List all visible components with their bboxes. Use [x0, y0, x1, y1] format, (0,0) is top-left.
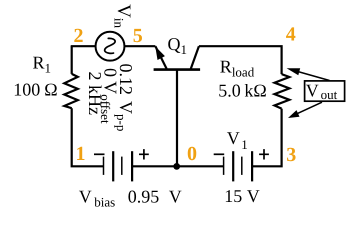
wire collector to top-right corner, down to R_load [199, 46, 282, 74]
svg-text:V1: V1 [227, 128, 248, 152]
svg-text:100: 100 [13, 80, 40, 100]
wire left rail top segment [71, 46, 73, 74]
battery V1 plate 4 (long, +) [251, 151, 253, 181]
wire battery V1 to junction node 0 to battery V_bias [132, 165, 224, 167]
V_out lower arrowhead [288, 110, 300, 118]
AC source V_in circle [96, 32, 125, 61]
svg-text:0: 0 [187, 143, 197, 165]
svg-text:R1: R1 [33, 53, 52, 76]
junction dot node 0 [173, 163, 180, 170]
svg-text:0.95: 0.95 [128, 186, 160, 206]
svg-text:2: 2 [74, 25, 84, 47]
battery V1 plate 1 (short, -) [223, 157, 225, 175]
transistor Q1 emitter lead [155, 46, 166, 69]
svg-text:15: 15 [224, 186, 242, 206]
svg-text:5.0 kΩ: 5.0 kΩ [218, 80, 266, 100]
svg-text:3: 3 [286, 144, 296, 166]
V_out upper arrow line [296, 71, 330, 81]
battery V_bias plate 4 (long, +) [131, 151, 133, 181]
svg-text:V: V [169, 186, 182, 206]
resistor R1 zigzag [64, 74, 78, 108]
transistor Q1 collector lead [191, 46, 199, 69]
V_out upper arrowhead [287, 68, 301, 75]
battery V_bias minus sign [94, 153, 105, 155]
battery V_bias plate 1 (short, -) [103, 157, 105, 175]
battery V1 minus sign [214, 153, 225, 155]
V_out probe box [305, 81, 345, 101]
svg-text:Q1: Q1 [168, 34, 188, 57]
battery V_bias plate 2 (long) [112, 151, 114, 181]
V_out lower arrow line [293, 102, 322, 115]
battery V_bias plate 3 (short) [121, 157, 123, 175]
svg-text:Ω: Ω [44, 80, 57, 100]
battery V1 plate 3 (short) [241, 157, 243, 175]
wire R_load bottom to bottom-right corner to battery V1 [252, 109, 282, 167]
svg-text:Vin: Vin [111, 4, 134, 28]
battery V_bias plus sign [139, 149, 149, 159]
svg-text:Vbias: Vbias [79, 186, 116, 209]
wire top-left to source [71, 45, 96, 47]
battery V1 plate 2 (long) [232, 151, 234, 181]
transistor Q1 base bar [154, 68, 201, 71]
svg-text:1: 1 [76, 143, 86, 165]
svg-text:V: V [247, 186, 260, 206]
battery V1 plus sign [259, 149, 269, 159]
wire source to emitter [125, 45, 156, 47]
base lead Q1 down to node 0 [176, 70, 178, 167]
svg-text:5: 5 [133, 25, 143, 47]
resistor R_load zigzag [275, 74, 290, 109]
transistor Q1 emitter arrowhead [156, 48, 164, 59]
wire left rail bottom segment and bottom-left corner [72, 108, 104, 166]
svg-text:2 kHz: 2 kHz [85, 72, 105, 116]
AC source sine squiggle [105, 38, 115, 53]
svg-text:Rload: Rload [220, 56, 255, 79]
svg-text:4: 4 [286, 24, 296, 46]
